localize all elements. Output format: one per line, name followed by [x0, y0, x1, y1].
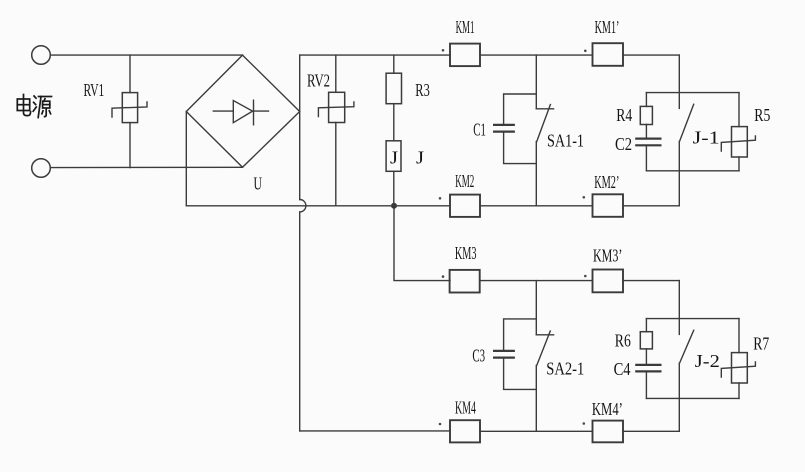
capacitor C1: [494, 94, 536, 164]
wire right riser rail3 to J-2 loop: [678, 281, 680, 319]
svg-text:R6: R6: [615, 331, 631, 351]
wire rail1 segment C: [623, 54, 679, 56]
svg-text:KM1: KM1: [456, 17, 475, 37]
svg-text:U: U: [254, 173, 263, 193]
wire bridge right vertex riser x=300 with hop over rail2: [300, 55, 306, 431]
contactor contact KM3: [450, 270, 480, 293]
svg-text:SA2-1: SA2-1: [546, 359, 584, 379]
wire feed down to rail3: [394, 206, 450, 281]
resistor R4: [640, 93, 652, 125]
varistor R5: [721, 93, 755, 171]
relay contact J-1: [679, 93, 693, 206]
svg-text:KM2’: KM2’: [594, 172, 619, 192]
varistor R7: [721, 319, 755, 399]
svg-text:KM3: KM3: [455, 243, 477, 263]
terminal T2 (lower supply terminal): [32, 159, 51, 178]
speck dots near contact boxes: [439, 49, 587, 425]
snubber loop bottom: [646, 170, 739, 172]
contactor contact KM3': [593, 270, 624, 293]
contactor contact KM2: [450, 195, 480, 217]
wire rail2 segment C: [623, 205, 679, 207]
wire rail4 segment A: [300, 430, 450, 432]
wire rail3 segment B: [480, 280, 593, 282]
capacitor C2: [636, 125, 660, 171]
contactor contact KM1: [450, 44, 480, 67]
svg-text:R7: R7: [753, 334, 769, 354]
relay coil J: [386, 104, 401, 206]
svg-text:R5: R5: [754, 105, 770, 125]
svg-text:R4: R4: [616, 105, 632, 125]
snubber loop top (R4/J-1/R5 node): [646, 92, 739, 94]
svg-text:KM3’: KM3’: [593, 245, 622, 265]
resistor R6: [640, 319, 652, 349]
svg-text:C2: C2: [615, 134, 632, 154]
wire rail1 segment A: [300, 54, 450, 56]
contactor contact KM4': [593, 421, 624, 443]
svg-text:J: J: [416, 148, 424, 168]
wire right riser rail1 to J-1 loop: [678, 55, 680, 93]
wire rail2 left segment: [186, 205, 450, 207]
relay contact J-2: [679, 319, 693, 432]
resistor R3: [386, 55, 401, 104]
svg-text:C3: C3: [472, 346, 485, 366]
svg-text:KM4: KM4: [455, 398, 476, 418]
wire T2 to bridge bottom vertex: [50, 166, 242, 168]
varistor RV2: [318, 55, 354, 206]
wire bridge left vertex down (DC- lead): [185, 112, 187, 206]
svg-text:J-1: J-1: [693, 128, 720, 148]
wire rail1 segment B: [480, 54, 593, 56]
component value labels: [84, 17, 771, 419]
varistor RV1: [112, 55, 147, 168]
svg-text:R3: R3: [415, 80, 430, 100]
wire rail4 segment B: [480, 430, 593, 432]
capacitor C4: [636, 349, 660, 399]
contactor contact KM1': [593, 43, 624, 66]
svg-text:KM2: KM2: [455, 171, 474, 191]
svg-text:RV2: RV2: [307, 71, 330, 91]
snubber2 loop top (R6/J-2/R7 node): [646, 318, 739, 320]
svg-text:RV1: RV1: [84, 80, 105, 100]
contactor contact KM2': [593, 194, 624, 217]
snubber2 loop bottom: [646, 397, 739, 399]
bridge rectifier U: [186, 55, 299, 167]
svg-text:J-2: J-2: [695, 351, 720, 371]
contactor contact KM4: [450, 420, 480, 442]
wire T1 to bridge top vertex: [50, 54, 242, 56]
svg-text:J: J: [390, 148, 398, 168]
terminal T1 (upper supply terminal): [32, 46, 51, 65]
svg-text:C4: C4: [614, 359, 631, 379]
node label 电源 (supply) drawn strokes: [17, 95, 51, 118]
svg-text:KM1’: KM1’: [595, 17, 620, 37]
svg-text:KM4’: KM4’: [592, 399, 623, 419]
wire rail3 segment C: [623, 280, 679, 282]
switch SA1-1: [536, 55, 553, 206]
svg-text:SA1-1: SA1-1: [547, 131, 584, 151]
capacitor C3: [494, 319, 536, 390]
wire rail2 segment B: [480, 205, 593, 207]
svg-text:C1: C1: [473, 120, 486, 140]
wire rail4 segment C: [623, 430, 679, 432]
junction node (rail2 / J coil / lower feed): [392, 204, 397, 209]
switch SA2-1: [536, 281, 553, 432]
